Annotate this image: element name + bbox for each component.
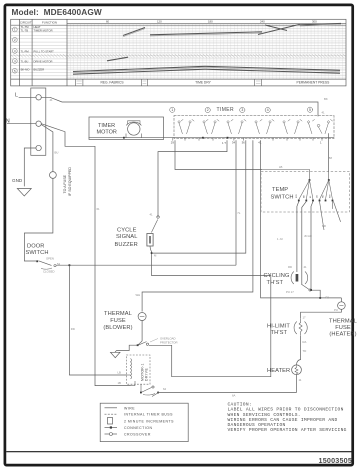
svg-text:11: 11	[299, 378, 302, 382]
svg-text:TIMER: TIMER	[217, 107, 235, 113]
terminal L	[36, 95, 41, 100]
svg-text:REG. FABRICS: REG. FABRICS	[100, 81, 124, 85]
ground 2	[111, 352, 121, 357]
heater R1	[292, 365, 302, 375]
svg-text:SWITCH: SWITCH	[271, 195, 294, 201]
svg-text:1 T: 1 T	[222, 141, 226, 145]
svg-text:PU: PU	[334, 308, 338, 312]
svg-text:240: 240	[260, 20, 265, 24]
wire timer to door-switch net	[235, 140, 237, 265]
svg-text:41: 41	[322, 111, 326, 115]
svg-text:RA: RA	[303, 340, 307, 344]
svg-text:1B: 1B	[118, 381, 122, 385]
timer U1 dashed box	[174, 116, 334, 139]
svg-text:TH’ST: TH’ST	[271, 330, 288, 336]
junction timer motor	[123, 137, 125, 139]
svg-text:WH: WH	[136, 293, 141, 297]
svg-text:RD: RD	[323, 194, 325, 198]
svg-text:41: 41	[310, 195, 312, 198]
buzzer contact	[151, 216, 159, 233]
timer cam number 3	[240, 107, 245, 112]
wire heater return	[296, 375, 298, 393]
wire N drop	[41, 124, 130, 386]
svg-text:THERMAL: THERMAL	[329, 319, 357, 325]
timer terminal labels	[171, 141, 322, 145]
svg-text:TL-PM: TL-PM	[21, 50, 30, 54]
svg-text:BR: BR	[322, 224, 326, 228]
hi-limit thermostat TH2	[294, 319, 307, 335]
svg-text:BU: BU	[55, 151, 59, 155]
wire temp feed inside	[262, 170, 328, 180]
timer chart structural lines	[11, 19, 346, 86]
svg-text:54: 54	[57, 262, 61, 266]
svg-text:WIRING ERRORS CAN CAUSE IMPROP: WIRING ERRORS CAN CAUSE IMPROPER AND	[228, 417, 338, 423]
svg-text:PULL TO START: PULL TO START	[34, 50, 55, 54]
svg-text:PERMANENT PRESS: PERMANENT PRESS	[297, 81, 331, 85]
svg-text:RD: RD	[71, 327, 75, 331]
svg-text:TEMP: TEMP	[272, 187, 288, 193]
wire L lead	[19, 96, 36, 98]
svg-text:LB: LB	[317, 195, 319, 198]
svg-text:1: 1	[171, 108, 173, 112]
temp switch blades	[299, 180, 333, 200]
cycling thermostat TH1	[291, 272, 308, 285]
wire door branch to motor	[69, 265, 126, 375]
thermal fuse heater F3	[338, 302, 346, 310]
svg-text:2: 2	[207, 108, 209, 112]
svg-text:FUSE: FUSE	[335, 325, 351, 331]
svg-text:MO: MO	[296, 194, 298, 198]
label to a fuse	[63, 167, 72, 196]
junction on buss	[202, 137, 204, 139]
svg-text:TD: TD	[303, 349, 307, 353]
chart bottom labels	[100, 81, 330, 85]
legend crossover row	[105, 433, 118, 435]
centrifugal switch	[141, 386, 158, 397]
buzzer BZ1 element	[147, 234, 153, 247]
wire hi-limit to heater	[297, 336, 301, 366]
wire temp out 5 stub	[332, 201, 334, 209]
wire stat output	[311, 290, 341, 302]
svg-text:CIRCUIT: CIRCUIT	[20, 21, 32, 25]
timer chart grid area	[67, 24, 346, 79]
svg-text:TL-TM: TL-TM	[21, 25, 30, 29]
svg-text:FUSE: FUSE	[110, 318, 126, 324]
svg-text:HEAT: HEAT	[34, 25, 41, 29]
svg-text:CLOSED: CLOSED	[43, 270, 55, 274]
timer cam number 4	[265, 107, 270, 112]
leader line	[150, 339, 158, 343]
svg-text:Model: MDE6400AGW: Model: MDE6400AGW	[12, 7, 102, 17]
svg-text:CYCLE: CYCLE	[117, 228, 137, 234]
wire temp out 4 stub	[320, 201, 325, 230]
svg-text:LABEL ALL WIRES PRIOR TO DISCO: LABEL ALL WIRES PRIOR TO DISCONNECTION	[228, 407, 344, 413]
timer terminal stubs	[173, 138, 322, 141]
svg-text:36: 36	[242, 141, 246, 145]
wire temp-switch feed	[175, 140, 262, 169]
temp switch dashed box	[261, 172, 350, 213]
svg-text:TIMER MOTOR: TIMER MOTOR	[34, 28, 53, 32]
svg-text:180: 180	[208, 20, 213, 24]
timer chart fine horizontal row lines	[11, 29, 346, 76]
legend wire row	[105, 407, 118, 409]
timer internal buss	[89, 137, 334, 139]
svg-text:SWITCH: SWITCH	[26, 250, 49, 256]
wire fuse to overload	[141, 321, 143, 342]
legend 2 minute increments row	[108, 418, 113, 425]
wire motor switch output	[158, 392, 297, 394]
wire fuse to hi-limit	[301, 309, 342, 319]
svg-text:60: 60	[106, 20, 110, 24]
svg-text:RD: RD	[288, 265, 292, 269]
svg-text:61: 61	[97, 207, 101, 211]
cam trace bars	[73, 23, 341, 74]
temp switch terminals	[298, 200, 334, 202]
temp switch pivots	[309, 179, 311, 181]
svg-text:OPEN: OPEN	[46, 257, 54, 261]
svg-text:THERMAL: THERMAL	[104, 311, 132, 317]
svg-text:TL-TB: TL-TB	[21, 28, 29, 32]
bottom strip divider line	[6, 451, 353, 453]
svg-text:(BLOWER): (BLOWER)	[103, 325, 132, 331]
motor M2 dashed box	[126, 355, 150, 384]
svg-text:HEATER: HEATER	[267, 368, 290, 374]
motor windings	[130, 359, 133, 379]
wire fuse to door switch	[24, 178, 53, 261]
wire N lead	[7, 123, 36, 125]
svg-text:DRIVE: DRIVE	[145, 367, 149, 381]
svg-text:(HEATER): (HEATER)	[329, 332, 356, 338]
junction door branch	[69, 264, 71, 266]
svg-text:BUZZER: BUZZER	[115, 242, 138, 248]
svg-text:5: 5	[309, 108, 311, 112]
svg-text:300: 300	[312, 20, 317, 24]
svg-text:P2: P2	[326, 296, 330, 300]
svg-text:TIME DRY: TIME DRY	[195, 81, 211, 85]
wire temp out 6 diagonal	[333, 201, 340, 222]
svg-text:GND: GND	[12, 178, 23, 183]
svg-text:VERIFY PROPER OPERATION AFTER: VERIFY PROPER OPERATION AFTER SERVICING	[228, 427, 347, 433]
svg-text:2 MINUTE INCREMENTS: 2 MINUTE INCREMENTS	[124, 419, 174, 423]
wire timer to blower-fuse net	[142, 140, 253, 311]
circled row numbers	[12, 27, 17, 73]
svg-text:TL-BU: TL-BU	[21, 60, 29, 64]
svg-text:PU 17: PU 17	[286, 290, 294, 294]
junction on buss 2	[227, 137, 229, 139]
svg-text:7L: 7L	[237, 211, 241, 215]
svg-text:CYCLING: CYCLING	[264, 273, 290, 279]
wire timer to buzzer	[158, 140, 227, 217]
svg-text:LB: LB	[118, 371, 122, 375]
svg-text:CONNECTION: CONNECTION	[124, 426, 153, 430]
svg-text:INTERNAL TIMER BUSS: INTERNAL TIMER BUSS	[124, 413, 173, 417]
svg-text:4: 4	[267, 108, 269, 112]
overload protector S2	[138, 341, 149, 345]
wire timer5 to temp switch	[327, 133, 329, 171]
junction stat step	[319, 297, 321, 299]
svg-text:41: 41	[304, 265, 308, 269]
svg-text:FUNCTION: FUNCTION	[42, 21, 57, 25]
svg-text:64: 64	[163, 387, 167, 391]
svg-text:LB: LB	[279, 165, 283, 169]
wire temp out 3	[311, 201, 313, 290]
svg-text:BK: BK	[324, 97, 328, 101]
svg-text:HI-LIMIT: HI-LIMIT	[267, 324, 290, 330]
fuse F1	[50, 172, 57, 179]
svg-text:WH: WH	[330, 194, 332, 198]
svg-text:CROSSOVER: CROSSOVER	[124, 433, 151, 437]
svg-text:41: 41	[150, 213, 154, 217]
terminal G	[36, 145, 41, 150]
timer cam number 5	[307, 107, 312, 112]
terminal N	[36, 121, 41, 126]
svg-text:17: 17	[303, 315, 307, 319]
svg-text:BK-MO: BK-MO	[21, 68, 30, 72]
svg-text:6A: 6A	[232, 393, 236, 397]
svg-text:L: L	[15, 93, 18, 99]
legend box	[100, 403, 188, 441]
svg-text:120: 120	[157, 20, 162, 24]
wire L run to timer	[41, 97, 318, 116]
svg-text:BK: BK	[304, 195, 306, 198]
svg-text:WHEN SERVICING CONTROLS.: WHEN SERVICING CONTROLS.	[228, 412, 301, 418]
junction buzzer out	[151, 252, 153, 254]
svg-text:CAUTION:: CAUTION:	[228, 402, 252, 408]
timer cam number 2	[205, 107, 210, 112]
wire fuse branch	[41, 125, 53, 172]
chart tick numbers	[106, 20, 317, 24]
chart bottom label row dividers	[75, 79, 261, 86]
svg-text:M: M	[154, 254, 157, 258]
timer motor M1 symbol	[126, 121, 142, 138]
svg-text:DANGEROUS OPERATION: DANGEROUS OPERATION	[228, 422, 286, 428]
wire motor to centrifugal	[140, 384, 142, 391]
svg-text:MOTOR: MOTOR	[97, 130, 117, 136]
svg-text:41: 41	[258, 141, 262, 145]
wire timer to heater return	[261, 140, 342, 298]
legend connection row	[105, 427, 118, 429]
svg-text:TH’ST: TH’ST	[267, 280, 284, 286]
svg-text:58: 58	[329, 156, 333, 160]
wire timer stub down	[152, 140, 246, 253]
svg-text:3: 3	[241, 108, 243, 112]
svg-text:IF SO EQUIPPED: IF SO EQUIPPED	[68, 167, 72, 196]
timer cam number 1	[170, 107, 175, 112]
hatched band row	[11, 54, 346, 58]
timer motor box	[89, 117, 164, 140]
svg-text:TO A FUSE: TO A FUSE	[63, 174, 67, 193]
motor terminals	[126, 375, 135, 386]
temp terminal tiny labels	[296, 194, 332, 198]
legend internal timer buss row	[105, 413, 118, 415]
svg-text:1 JU: 1 JU	[277, 237, 283, 241]
timer contacts row	[178, 120, 333, 134]
ground wire	[24, 148, 36, 186]
door switch S1	[39, 261, 57, 269]
wire buzzer output	[149, 246, 271, 377]
svg-text:JN AC: JN AC	[304, 234, 312, 238]
svg-text:DRIVE MOTOR: DRIVE MOTOR	[34, 60, 53, 64]
thermal fuse blower F2	[138, 313, 146, 321]
terminal block	[31, 88, 46, 155]
svg-text:29: 29	[171, 141, 175, 145]
chart row labels	[21, 25, 55, 72]
svg-text:WIRE: WIRE	[124, 406, 135, 410]
svg-text:SIGNAL: SIGNAL	[116, 234, 137, 240]
wire temp out 2	[302, 201, 307, 285]
junction stat out	[310, 289, 312, 291]
svg-text:41: 41	[50, 98, 54, 102]
wire temp out 1	[297, 201, 299, 272]
cycling stat contact	[302, 285, 311, 292]
svg-text:34: 34	[232, 141, 236, 145]
svg-text:1: 1	[14, 28, 16, 32]
svg-text:DOOR: DOOR	[27, 244, 44, 250]
svg-text:PROTECTOR: PROTECTOR	[160, 340, 178, 344]
wire door switch output	[56, 264, 236, 266]
svg-text:BUZZER: BUZZER	[34, 68, 45, 72]
svg-text:1: 1	[320, 141, 322, 145]
svg-text:15003505: 15003505	[319, 456, 353, 465]
ground 2 wire	[117, 345, 138, 350]
svg-text:TIMER: TIMER	[98, 123, 115, 129]
